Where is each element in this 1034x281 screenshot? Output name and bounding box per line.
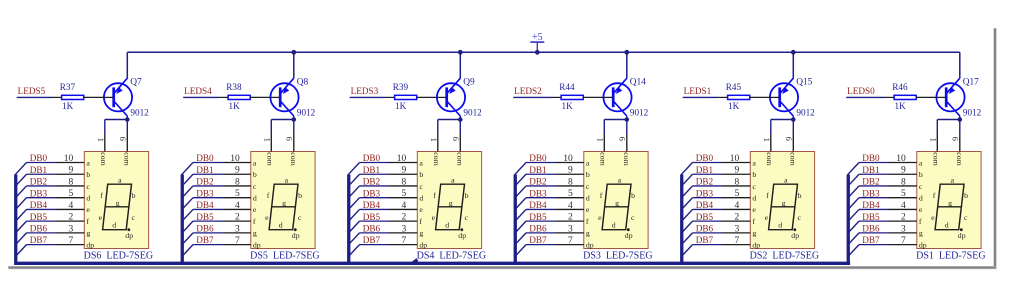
svg-text:DB2: DB2 <box>363 177 381 187</box>
svg-text:DB2: DB2 <box>529 177 547 187</box>
bus entry DB7 <box>348 245 359 257</box>
wire net DB0 <box>360 162 390 164</box>
wire LEDS2 to R44 <box>513 96 551 98</box>
svg-text:2: 2 <box>568 213 573 223</box>
wire net DB6 <box>859 232 889 234</box>
svg-text:DB6: DB6 <box>529 223 547 233</box>
bus entry DB0 <box>848 163 859 175</box>
display DS6 7-segment glyph <box>99 176 136 240</box>
svg-text:6: 6 <box>284 137 294 141</box>
svg-text:dp: dp <box>791 231 799 240</box>
junction collector node <box>458 117 463 122</box>
svg-text:g: g <box>919 229 923 238</box>
svg-text:com: com <box>455 152 464 165</box>
svg-text:6: 6 <box>451 137 461 141</box>
transistor Q7 PNP 9012 <box>104 78 132 116</box>
svg-text:DS3 LED-7SEG: DS3 LED-7SEG <box>583 251 652 262</box>
svg-text:g: g <box>782 198 786 207</box>
svg-text:DB2: DB2 <box>862 177 880 187</box>
svg-text:3: 3 <box>901 224 906 234</box>
svg-text:c: c <box>131 213 135 222</box>
wire net DB7 <box>526 244 556 246</box>
wire net DB0 <box>526 162 556 164</box>
wire collector to com pins <box>604 116 627 134</box>
bus entry DB5 <box>15 221 26 233</box>
pin 4 e of DS6 <box>56 201 90 214</box>
pin 5 d of DS3 <box>556 189 590 202</box>
pin 9 b of DS3 <box>556 166 590 179</box>
svg-text:c: c <box>586 182 590 191</box>
7-seg display DS3 <box>584 152 648 249</box>
svg-text:4: 4 <box>734 201 739 211</box>
bus entry DB4 <box>182 209 193 221</box>
7-seg display DS6 <box>84 152 148 249</box>
svg-text:1K: 1K <box>229 101 241 111</box>
svg-text:9: 9 <box>235 166 240 176</box>
svg-text:6: 6 <box>118 137 128 141</box>
wire emitter to +5 rail <box>459 52 461 78</box>
svg-text:c: c <box>464 213 468 222</box>
bus entry DB7 <box>681 245 692 257</box>
pin 5 d of DS4 <box>389 189 423 202</box>
svg-text:DB7: DB7 <box>529 235 547 245</box>
svg-text:10: 10 <box>896 154 906 164</box>
pin 6 com of DS1 <box>950 133 964 166</box>
svg-text:DB1: DB1 <box>529 165 547 175</box>
svg-text:b: b <box>631 191 635 200</box>
bus entry DB4 <box>15 209 26 221</box>
svg-text:DB7: DB7 <box>30 235 48 245</box>
svg-text:8: 8 <box>901 177 906 187</box>
svg-text:dp: dp <box>125 231 133 240</box>
pin 8 c of DS4 <box>389 177 423 190</box>
svg-text:c: c <box>631 213 635 222</box>
wire net DB4 <box>526 208 556 210</box>
bus DB0..DB7 horizontal <box>14 262 850 265</box>
svg-text:g: g <box>752 229 756 238</box>
bus entry DB7 <box>182 245 193 257</box>
svg-text:dp: dp <box>86 240 94 249</box>
pin 4 e of DS5 <box>223 201 257 214</box>
bus entry DB5 <box>848 221 859 233</box>
bus entry DB7 <box>848 245 859 257</box>
bus entry DB3 <box>681 198 692 210</box>
svg-text:5: 5 <box>235 189 240 199</box>
svg-text:e: e <box>86 205 90 214</box>
svg-text:DB5: DB5 <box>196 212 214 222</box>
svg-text:1: 1 <box>762 138 772 142</box>
svg-text:d: d <box>253 193 257 202</box>
svg-text:DB0: DB0 <box>196 153 214 163</box>
svg-text:DB0: DB0 <box>30 153 48 163</box>
power port +5 <box>530 32 544 52</box>
svg-text:2: 2 <box>901 213 906 223</box>
wire net DB7 <box>693 244 723 246</box>
svg-text:9012: 9012 <box>130 107 149 117</box>
svg-text:R46: R46 <box>892 82 908 92</box>
svg-text:dp: dp <box>253 240 261 249</box>
bus entry DB0 <box>515 163 526 175</box>
svg-text:R38: R38 <box>226 82 242 92</box>
svg-text:a: a <box>86 158 90 167</box>
wire net DB6 <box>693 232 723 234</box>
svg-text:R45: R45 <box>726 82 742 92</box>
wire net DB6 <box>360 232 390 234</box>
pin 3 g of DS2 <box>722 224 756 237</box>
wire net DB5 <box>360 220 390 222</box>
svg-text:DB7: DB7 <box>196 235 214 245</box>
pin 9 b of DS1 <box>889 166 923 179</box>
7-seg display DS5 <box>251 152 315 249</box>
wire net DB4 <box>27 208 57 210</box>
svg-text:f: f <box>752 217 755 226</box>
pin 9 b of DS6 <box>56 166 90 179</box>
bus entry DB2 <box>515 186 526 198</box>
svg-text:com: com <box>788 152 797 165</box>
wire emitter to +5 rail <box>959 52 961 78</box>
svg-text:com: com <box>622 152 631 165</box>
svg-text:1: 1 <box>928 138 938 142</box>
svg-text:DB4: DB4 <box>363 200 381 210</box>
pin 10 a of DS4 <box>389 154 423 167</box>
svg-text:a: a <box>752 158 756 167</box>
pin 4 e of DS1 <box>889 201 923 214</box>
pin 2 f of DS3 <box>556 213 589 226</box>
wire net DB1 <box>859 173 889 175</box>
wire net DB7 <box>859 244 889 246</box>
pin 7 dp of DS1 <box>889 236 927 249</box>
wire net DB4 <box>859 208 889 210</box>
svg-text:a: a <box>118 176 122 185</box>
pin 2 f of DS1 <box>889 213 922 226</box>
svg-text:1K: 1K <box>562 101 574 111</box>
svg-text:2: 2 <box>734 213 739 223</box>
svg-text:DB2: DB2 <box>30 177 48 187</box>
svg-text:d: d <box>445 221 449 230</box>
bus entry DB6 <box>848 233 859 245</box>
svg-text:DB6: DB6 <box>196 223 214 233</box>
sheet edge shadow right <box>993 28 996 267</box>
bus DB0..DB7 vertical <box>347 175 350 264</box>
svg-text:DB7: DB7 <box>363 235 381 245</box>
bus entry DB4 <box>515 209 526 221</box>
pin 4 e of DS3 <box>556 201 590 214</box>
svg-text:DB5: DB5 <box>696 212 714 222</box>
pin 10 a of DS2 <box>722 154 756 167</box>
svg-text:Q8: Q8 <box>297 77 309 87</box>
wire net DB4 <box>360 208 390 210</box>
bus DB0..DB7 vertical <box>847 175 850 264</box>
svg-text:3: 3 <box>235 224 240 234</box>
svg-text:Q17: Q17 <box>963 77 979 87</box>
svg-text:Q7: Q7 <box>130 77 142 87</box>
svg-text:g: g <box>116 198 120 207</box>
svg-text:9: 9 <box>568 166 573 176</box>
svg-text:a: a <box>586 158 590 167</box>
svg-text:f: f <box>419 217 422 226</box>
svg-text:com: com <box>432 152 441 165</box>
svg-text:3: 3 <box>401 224 406 234</box>
svg-text:2: 2 <box>235 213 240 223</box>
svg-text:dp: dp <box>292 231 300 240</box>
bus entry DB1 <box>681 174 692 186</box>
svg-text:9012: 9012 <box>463 107 482 117</box>
svg-text:d: d <box>279 221 283 230</box>
bus entry DB5 <box>515 221 526 233</box>
svg-text:DB7: DB7 <box>862 235 880 245</box>
junction collector node <box>125 117 130 122</box>
svg-text:a: a <box>253 158 257 167</box>
sheet edge shadow bottom <box>8 266 997 269</box>
svg-text:DB3: DB3 <box>30 188 48 198</box>
junction collector node <box>791 117 796 122</box>
svg-text:DB2: DB2 <box>696 177 714 187</box>
bus entry DB0 <box>348 163 359 175</box>
pin 8 c of DS3 <box>556 177 590 190</box>
wire net DB2 <box>360 185 390 187</box>
bus entry DB4 <box>848 209 859 221</box>
pin 10 a of DS6 <box>56 154 90 167</box>
svg-text:7: 7 <box>235 236 240 246</box>
svg-text:DS5 LED-7SEG: DS5 LED-7SEG <box>250 251 319 262</box>
pin 5 d of DS1 <box>889 189 923 202</box>
pin 7 dp of DS4 <box>389 236 427 249</box>
wire net DB2 <box>693 185 723 187</box>
svg-text:a: a <box>419 158 423 167</box>
wire LEDS1 to R45 <box>683 96 718 98</box>
wire emitter to +5 rail <box>293 52 295 78</box>
svg-text:8: 8 <box>734 177 739 187</box>
bus entry DB1 <box>515 174 526 186</box>
svg-text:DB6: DB6 <box>696 223 714 233</box>
bus DB0..DB7 vertical <box>14 175 17 264</box>
wire LEDS5 to R37 <box>17 96 52 98</box>
svg-text:g: g <box>449 198 453 207</box>
svg-text:e: e <box>586 205 590 214</box>
svg-text:DS2 LED-7SEG: DS2 LED-7SEG <box>750 251 819 262</box>
svg-text:f: f <box>86 217 89 226</box>
wire net DB4 <box>193 208 223 210</box>
transistor Q14 PNP 9012 <box>603 78 631 116</box>
wire net DB2 <box>27 185 57 187</box>
svg-text:g: g <box>86 229 90 238</box>
svg-text:d: d <box>586 193 590 202</box>
svg-text:DB0: DB0 <box>862 153 880 163</box>
bus entry DB2 <box>848 186 859 198</box>
svg-text:g: g <box>948 198 952 207</box>
pin 6 com of DS3 <box>617 133 631 166</box>
svg-text:DB5: DB5 <box>363 212 381 222</box>
junction collector node <box>625 117 630 122</box>
svg-text:b: b <box>752 170 756 179</box>
wire net DB0 <box>27 162 57 164</box>
bus entry DB0 <box>182 163 193 175</box>
svg-text:c: c <box>86 182 90 191</box>
svg-text:7: 7 <box>568 236 573 246</box>
svg-text:9: 9 <box>901 166 906 176</box>
svg-text:dp: dp <box>958 231 966 240</box>
wire collector to com pins <box>771 116 794 134</box>
bus entry DB1 <box>348 174 359 186</box>
transistor Q17 PNP 9012 <box>936 78 964 116</box>
wire emitter to +5 rail <box>126 52 128 78</box>
svg-text:DS1 LED-7SEG: DS1 LED-7SEG <box>916 251 985 262</box>
svg-text:e: e <box>253 205 257 214</box>
resistor R39 <box>385 95 445 99</box>
transistor Q8 PNP 9012 <box>270 78 298 116</box>
svg-text:DS6 LED-7SEG: DS6 LED-7SEG <box>84 251 153 262</box>
bus entry DB5 <box>182 221 193 233</box>
svg-text:9: 9 <box>401 166 406 176</box>
wire net DB7 <box>27 244 57 246</box>
svg-text:Q9: Q9 <box>463 77 475 87</box>
svg-text:f: f <box>267 191 270 200</box>
svg-text:d: d <box>752 193 756 202</box>
bus entry DB3 <box>15 198 26 210</box>
svg-text:8: 8 <box>568 177 573 187</box>
svg-text:DB0: DB0 <box>529 153 547 163</box>
svg-text:LEDS3: LEDS3 <box>351 86 379 96</box>
svg-text:d: d <box>612 221 616 230</box>
pin 8 c of DS5 <box>223 177 257 190</box>
wire LEDS3 to R39 <box>350 96 385 98</box>
svg-text:DB3: DB3 <box>363 188 381 198</box>
svg-text:e: e <box>265 213 269 222</box>
svg-text:com: com <box>122 152 131 165</box>
svg-text:DB1: DB1 <box>363 165 381 175</box>
pin 1 com of DS3 <box>595 133 607 166</box>
svg-text:R39: R39 <box>393 82 409 92</box>
svg-text:1K: 1K <box>895 101 907 111</box>
svg-text:c: c <box>752 182 756 191</box>
wire net DB7 <box>193 244 223 246</box>
svg-text:b: b <box>964 191 968 200</box>
svg-text:b: b <box>132 191 136 200</box>
bus entry DB3 <box>348 198 359 210</box>
bus DB0..DB7 vertical <box>680 175 683 264</box>
junction collector node <box>958 117 963 122</box>
svg-text:c: c <box>919 182 923 191</box>
svg-text:com: com <box>955 152 964 165</box>
svg-text:DB5: DB5 <box>529 212 547 222</box>
wire net DB1 <box>27 173 57 175</box>
display DS2 7-segment glyph <box>765 176 802 240</box>
svg-text:4: 4 <box>401 201 406 211</box>
svg-text:b: b <box>419 170 423 179</box>
pin 8 c of DS2 <box>722 177 756 190</box>
svg-text:f: f <box>100 191 103 200</box>
svg-text:b: b <box>798 191 802 200</box>
svg-text:LEDS5: LEDS5 <box>18 86 46 96</box>
svg-text:e: e <box>752 205 756 214</box>
svg-text:LEDS4: LEDS4 <box>184 86 212 96</box>
bus entry DB1 <box>15 174 26 186</box>
svg-text:b: b <box>586 170 590 179</box>
svg-text:com: com <box>599 152 608 165</box>
svg-text:e: e <box>765 213 769 222</box>
resistor R46 <box>885 95 945 99</box>
pin 8 c of DS1 <box>889 177 923 190</box>
svg-text:9: 9 <box>68 166 73 176</box>
bus entry DB4 <box>681 209 692 221</box>
bus entry DB2 <box>681 186 692 198</box>
svg-text:8: 8 <box>68 177 73 187</box>
svg-text:f: f <box>586 217 589 226</box>
svg-text:1: 1 <box>96 138 106 142</box>
svg-text:3: 3 <box>568 224 573 234</box>
7-seg display DS2 <box>750 152 814 249</box>
svg-text:DB5: DB5 <box>862 212 880 222</box>
wire net DB0 <box>193 162 223 164</box>
wire +5 rail <box>127 51 960 53</box>
svg-text:DB0: DB0 <box>696 153 714 163</box>
wire net DB6 <box>193 232 223 234</box>
svg-text:1: 1 <box>262 138 272 142</box>
pin 10 a of DS3 <box>556 154 590 167</box>
pin 2 f of DS4 <box>389 213 422 226</box>
svg-text:a: a <box>919 158 923 167</box>
junction collector node <box>292 117 297 122</box>
svg-text:9012: 9012 <box>963 107 982 117</box>
svg-text:7: 7 <box>68 236 73 246</box>
pin 4 e of DS2 <box>722 201 756 214</box>
svg-text:DB1: DB1 <box>196 165 214 175</box>
svg-text:DB1: DB1 <box>696 165 714 175</box>
pin 3 g of DS1 <box>889 224 923 237</box>
bus entry DB6 <box>515 233 526 245</box>
svg-text:R44: R44 <box>559 82 575 92</box>
svg-text:4: 4 <box>901 201 906 211</box>
svg-text:5: 5 <box>734 189 739 199</box>
svg-text:a: a <box>451 176 455 185</box>
wire net DB2 <box>859 185 889 187</box>
pin 7 dp of DS6 <box>56 236 94 249</box>
pin 1 com of DS4 <box>429 133 441 166</box>
wire emitter to +5 rail <box>626 52 628 78</box>
svg-text:8: 8 <box>235 177 240 187</box>
bus entry DB2 <box>348 186 359 198</box>
svg-text:DB4: DB4 <box>30 200 48 210</box>
junction rail at Q15 <box>791 50 796 55</box>
wire net DB3 <box>859 197 889 199</box>
svg-text:DB4: DB4 <box>862 200 880 210</box>
svg-text:7: 7 <box>401 236 406 246</box>
svg-text:DB3: DB3 <box>196 188 214 198</box>
svg-text:Q15: Q15 <box>796 77 812 87</box>
svg-text:7: 7 <box>734 236 739 246</box>
svg-text:f: f <box>433 191 436 200</box>
wire net DB3 <box>693 197 723 199</box>
resistor R45 <box>718 95 778 99</box>
wire collector to com pins <box>105 116 128 134</box>
wire net DB1 <box>193 173 223 175</box>
bus entry DB3 <box>848 198 859 210</box>
svg-text:f: f <box>919 217 922 226</box>
svg-text:9012: 9012 <box>796 107 815 117</box>
junction rail at Q9 <box>458 50 463 55</box>
svg-text:4: 4 <box>68 201 73 211</box>
svg-text:6: 6 <box>784 137 794 141</box>
svg-text:10: 10 <box>230 154 240 164</box>
svg-text:dp: dp <box>419 240 427 249</box>
transistor Q9 PNP 9012 <box>437 78 465 116</box>
display DS5 7-segment glyph <box>265 176 302 240</box>
svg-text:DB5: DB5 <box>30 212 48 222</box>
svg-text:DB2: DB2 <box>196 177 214 187</box>
7-seg display DS1 <box>917 152 981 249</box>
bus entry DB7 <box>515 245 526 257</box>
display DS3 7-segment glyph <box>598 176 635 240</box>
